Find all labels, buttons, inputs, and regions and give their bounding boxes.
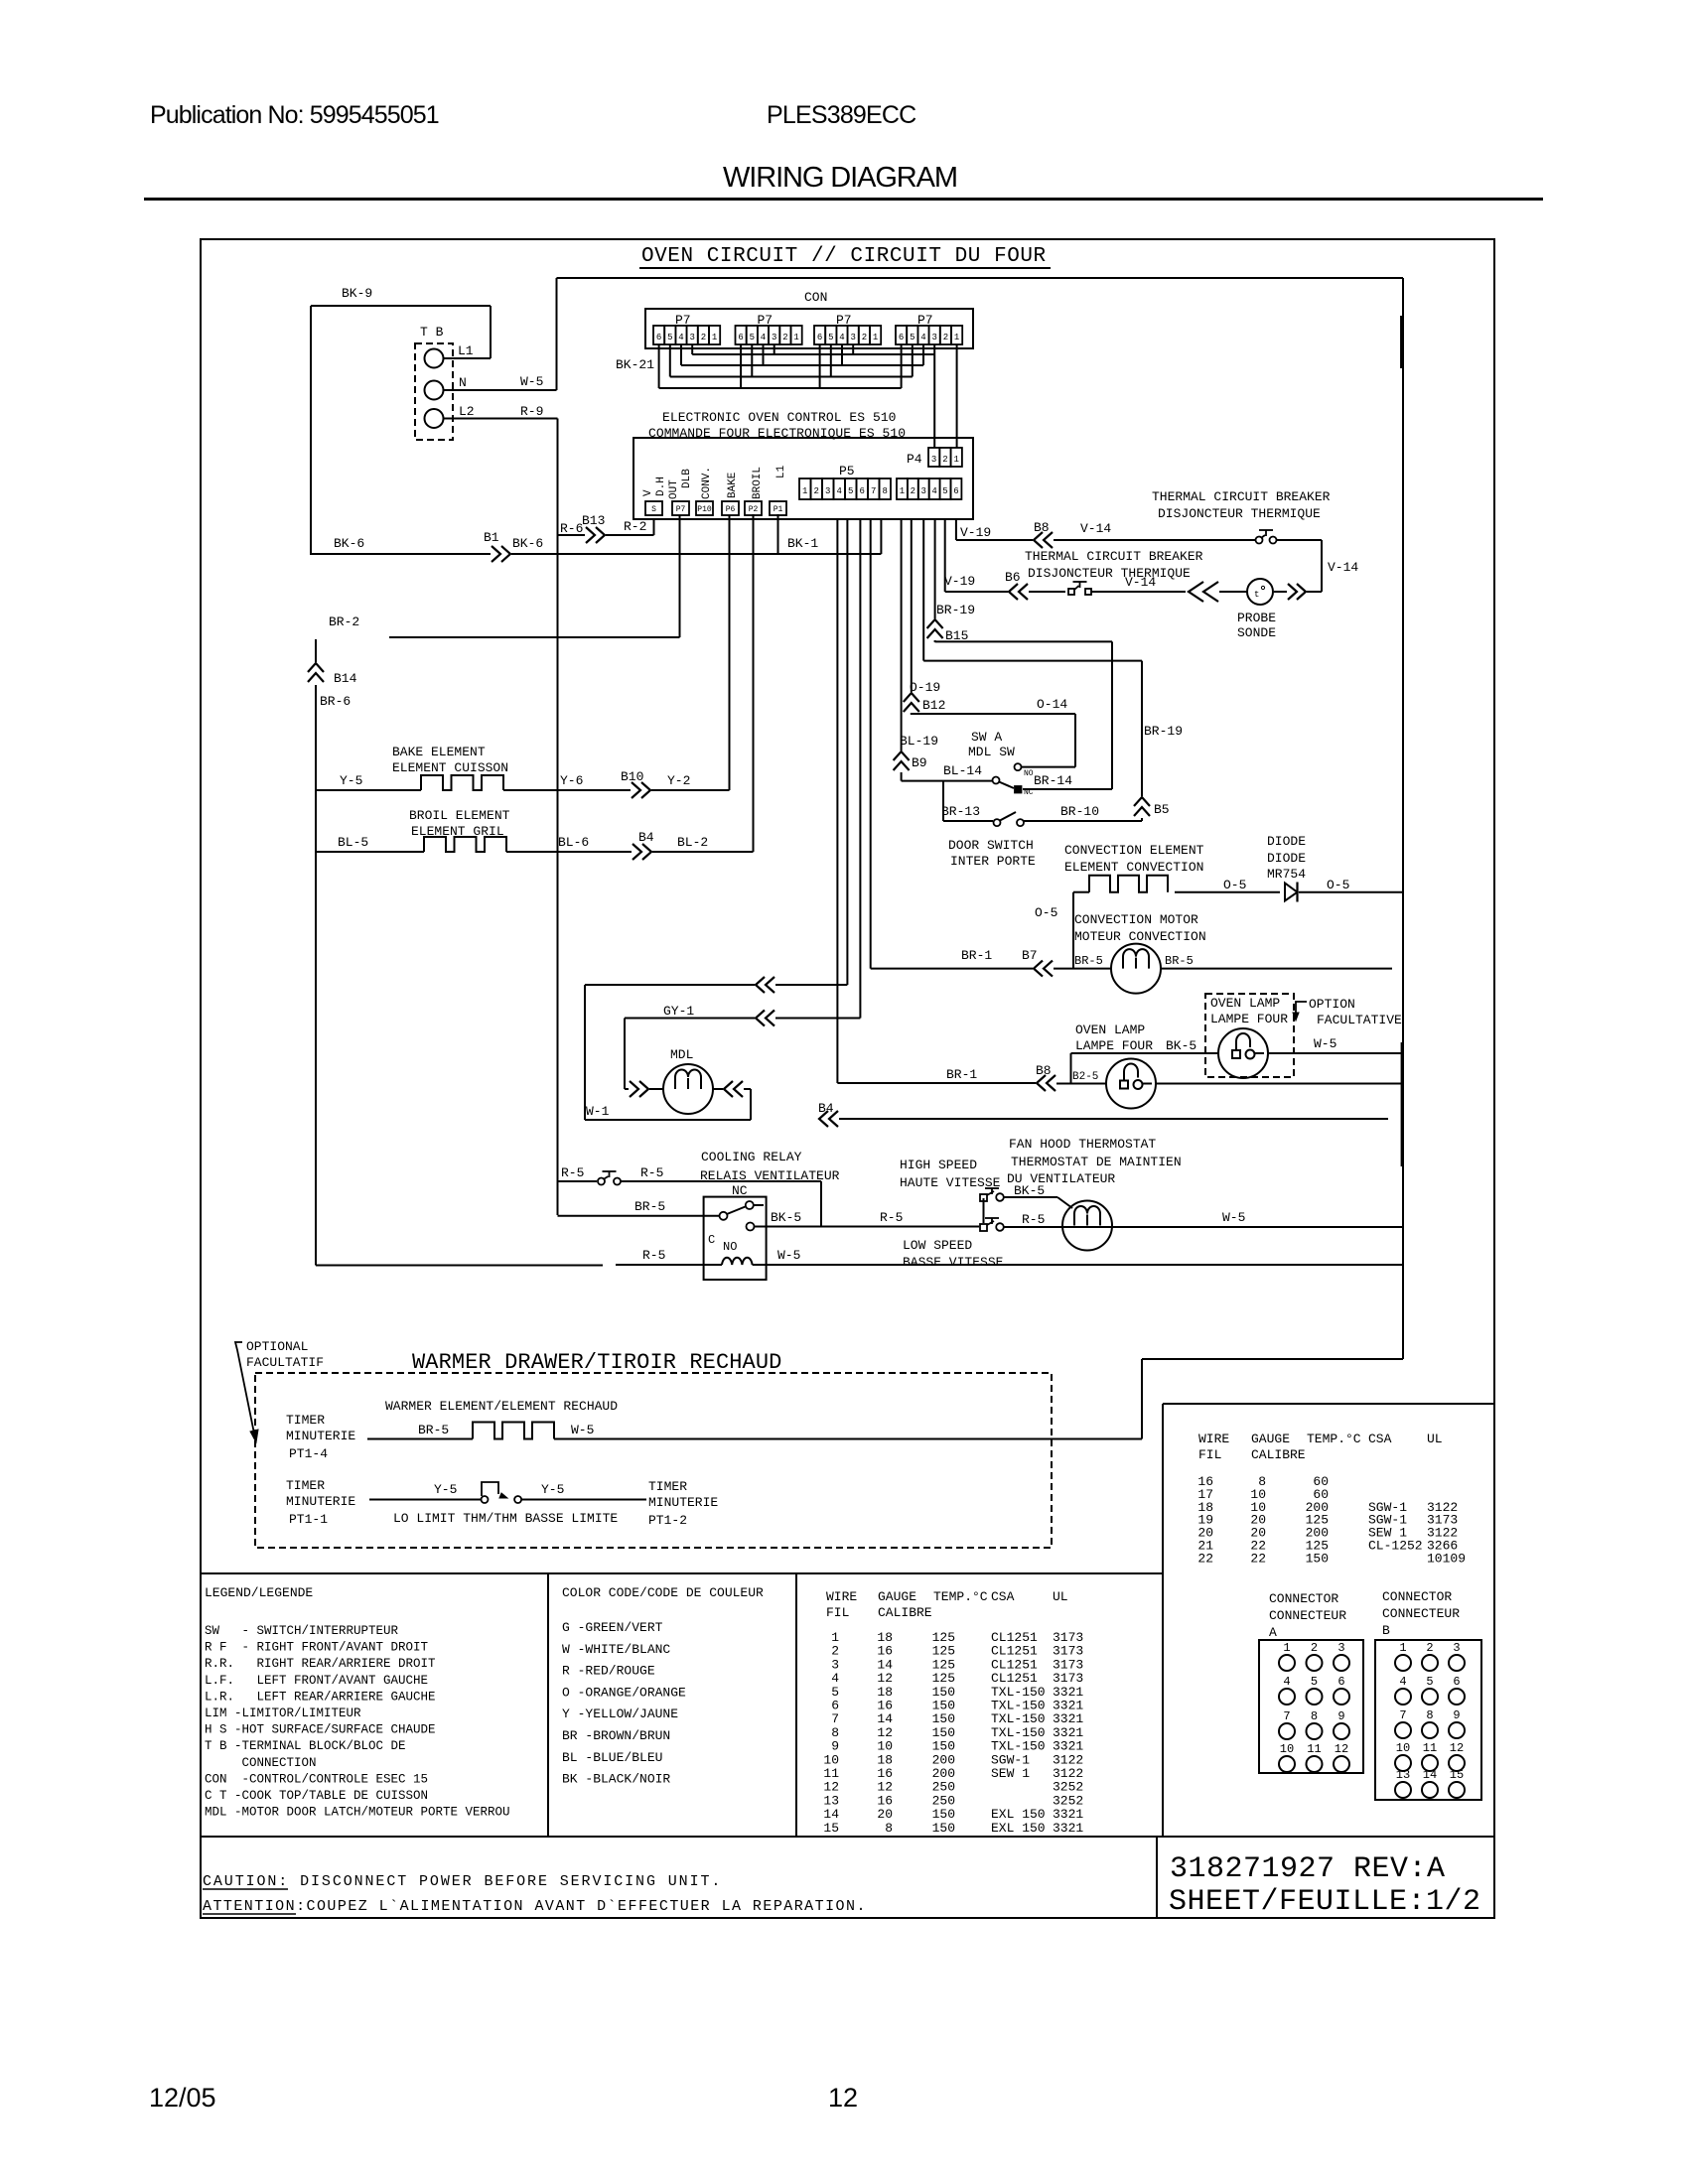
wire B3 drop [922,519,924,661]
svg-text:BROIL ELEMENT: BROIL ELEMENT [409,808,510,823]
connector A pin grid [1259,1640,1363,1773]
legend bottom edge [201,1836,1494,1838]
svg-text:MOTEUR CONVECTION: MOTEUR CONVECTION [1074,929,1206,944]
svg-text:V-19: V-19 [944,574,975,589]
wire CON to P4 pin 1 [956,344,958,448]
wire W-5 coil right [753,1264,1403,1266]
svg-text:OPTIONAL: OPTIONAL [246,1339,308,1354]
wire V-19 upper [956,539,1033,541]
svg-text:15: 15 [823,1821,839,1836]
svg-text:L.R. LEFT REAR/ARRIERE GAUCH: L.R. LEFT REAR/ARRIERE GAUCHE [205,1690,436,1704]
svg-text:4: 4 [836,486,841,496]
svg-text:2: 2 [942,455,947,465]
svg-text:CSA: CSA [991,1589,1015,1604]
svg-text:1: 1 [1283,1641,1290,1655]
svg-text:1: 1 [802,486,807,496]
svg-text:CONVECTION ELEMENT: CONVECTION ELEMENT [1064,843,1204,858]
svg-text:BK-21: BK-21 [616,357,654,372]
svg-text:22: 22 [1197,1551,1213,1566]
svg-text:BK-6: BK-6 [334,536,364,551]
EOC pin square S [645,501,662,515]
svg-text:B14: B14 [334,671,357,686]
svg-text:WIRING DIAGRAM: WIRING DIAGRAM [723,162,957,194]
svg-text:FACULTATIVE: FACULTATIVE [1317,1013,1402,1027]
wire connector to probe [1219,591,1247,593]
svg-text:P10: P10 [697,505,712,514]
svg-text:R-5: R-5 [561,1165,584,1180]
wire L2 main vertical [557,419,559,1216]
svg-text:O-5: O-5 [1327,878,1349,892]
svg-text:FIL: FIL [1198,1447,1221,1462]
svg-text:14: 14 [1423,1768,1437,1782]
svg-text:BR-5: BR-5 [1165,954,1194,968]
svg-text:THERMAL CIRCUIT BREAKER: THERMAL CIRCUIT BREAKER [1152,489,1331,504]
svg-text:LIM -LIMITOR/LIMITEUR: LIM -LIMITOR/LIMITEUR [205,1706,361,1720]
svg-text:15: 15 [1450,1768,1464,1782]
svg-text:B10: B10 [621,769,643,784]
caution underline [203,1888,288,1890]
svg-text:W-1: W-1 [586,1104,610,1119]
harness BK-21 bus wires [692,353,934,355]
wire BL-5 [316,851,424,853]
svg-text:C T -COOK TOP/TABLE DE CUISSON: C T -COOK TOP/TABLE DE CUISSON [205,1789,428,1803]
optional callout arrow [235,1342,254,1433]
wire BR-5 warmer [367,1438,473,1440]
wire BK-6 segment [311,553,491,555]
wire A7 drop [870,519,872,969]
schematic border frame [201,239,1494,1918]
svg-text:A: A [1269,1625,1277,1640]
svg-text:BR-10: BR-10 [1060,804,1099,819]
legend divider 2 [795,1573,797,1837]
svg-text:B4: B4 [638,830,654,845]
svg-text:W-5: W-5 [777,1248,800,1263]
wire B1 drop lower [901,772,903,781]
wire BL-2 [652,851,754,853]
svg-text:BR-6: BR-6 [320,694,351,709]
svg-text:PT1-2: PT1-2 [648,1513,687,1528]
wire warmer top link [1142,1358,1403,1360]
wire B2 drop upper [911,519,913,692]
svg-text:Y -YELLOW/JAUNE: Y -YELLOW/JAUNE [562,1706,678,1721]
svg-text:5: 5 [942,486,947,496]
svg-text:3: 3 [931,455,936,465]
svg-text:L2: L2 [459,404,475,419]
EOC pin square P2 [745,501,762,515]
svg-text:10: 10 [1280,1742,1294,1756]
wire B4 drop upper [934,519,936,618]
svg-text:B13: B13 [582,513,605,528]
svg-text:LEGEND/LEGENDE: LEGEND/LEGENDE [205,1585,313,1600]
svg-text:5: 5 [1426,1675,1433,1689]
svg-text:12: 12 [1450,1741,1464,1755]
svg-text:WARMER ELEMENT/ELEMENT RECHAUD: WARMER ELEMENT/ELEMENT RECHAUD [385,1399,618,1414]
wire BR-14 riser [1111,641,1113,789]
svg-text:Y-2: Y-2 [667,773,690,788]
svg-text:UL: UL [1053,1589,1068,1604]
svg-text:BK-9: BK-9 [342,286,372,301]
header rule [144,198,1543,201]
svg-text:1: 1 [953,455,958,465]
svg-text:6: 6 [1337,1675,1344,1689]
svg-text:P7: P7 [676,505,686,514]
probe sensor circle [1247,579,1273,605]
EOC pin square P6 [722,501,739,515]
wire V-14 upper [1054,539,1255,541]
svg-text:DIODE: DIODE [1267,851,1306,866]
wire BR-14 [1023,788,1112,790]
svg-text:12: 12 [1335,1742,1348,1756]
svg-text:ELEMENT CONVECTION: ELEMENT CONVECTION [1064,860,1203,875]
wire fan feed [821,1226,979,1228]
svg-text:L1: L1 [458,343,474,358]
svg-text:W-5: W-5 [571,1423,594,1437]
wire B2-5 into lamp [1056,1083,1106,1085]
svg-text:CON -CONTROL/CONTROLE ESEC 15: CON -CONTROL/CONTROLE ESEC 15 [205,1772,428,1786]
wire N to W-5 riser [443,389,557,391]
EOC connector P5 group A pins 1-8 [799,478,811,499]
wire MDL loop left vertical [584,985,586,1120]
svg-text:3: 3 [931,333,936,342]
relay NO contact [747,1223,755,1231]
svg-text:P4: P4 [907,452,922,467]
wire timer to lo-limit [369,1499,481,1501]
svg-text:W-5: W-5 [1314,1036,1336,1051]
low speed thermostat switch [980,1224,987,1231]
wire CON to P4 pin 3 [933,354,935,448]
wire V-19 lower [945,591,1008,593]
svg-text:GAUGE: GAUGE [1251,1432,1290,1446]
svg-text:4: 4 [761,333,766,342]
convection element resistor [1089,876,1168,892]
svg-text:BK-5: BK-5 [1166,1038,1196,1053]
svg-text:BK -BLACK/NOIR: BK -BLACK/NOIR [562,1772,670,1787]
wire optional lamp left [1071,1052,1219,1054]
terminal block T B dashed outline [415,343,453,440]
wire to SW A NO contact [1022,766,1075,768]
svg-text:LO LIMIT THM/THM BASSE LIMITE: LO LIMIT THM/THM BASSE LIMITE [393,1511,618,1526]
svg-text:L1: L1 [775,465,787,478]
caution divider [1156,1837,1158,1918]
svg-text:1: 1 [900,486,905,496]
svg-text:DISJONCTEUR THERMIQUE: DISJONCTEUR THERMIQUE [1158,506,1321,521]
right table box left edge [1162,1404,1164,1837]
svg-text:LAMPE FOUR: LAMPE FOUR [1210,1012,1288,1026]
high speed thermostat switch [980,1194,987,1201]
svg-text:B12: B12 [922,698,945,713]
svg-text:OPTION: OPTION [1309,997,1355,1012]
svg-text:TIMER: TIMER [286,1413,325,1428]
svg-text:MR754: MR754 [1267,867,1306,882]
svg-text:8: 8 [1311,1709,1318,1723]
svg-text:2: 2 [943,333,948,342]
svg-text:V: V [642,489,654,496]
wire V-14 right drop [1321,540,1323,592]
svg-text:12/05: 12/05 [149,2083,216,2113]
svg-text:5: 5 [1311,1675,1318,1689]
svg-text:DLB: DLB [681,469,693,488]
wire B5 drop [944,519,946,592]
svg-text:SW - SWITCH/INTERRUPTEUR: SW - SWITCH/INTERRUPTEUR [205,1624,399,1638]
EOC pin square P7 [672,501,689,515]
wire R-5 drop [820,1181,822,1226]
connector B pin grid [1375,1640,1481,1800]
svg-text:Y-5: Y-5 [340,773,362,788]
wire A5 horizontal [585,984,755,986]
SW A blade [999,782,1014,789]
wire O-14 drop [1074,714,1076,767]
svg-text:L.F. LEFT FRONT/AVANT GAUCHE: L.F. LEFT FRONT/AVANT GAUCHE [205,1674,428,1688]
svg-text:13: 13 [1396,1768,1410,1782]
wire B15 horizontal [935,640,1112,642]
relay NC contact [746,1201,754,1209]
wire motor to right gap [1161,968,1392,970]
connector B9 chevrons up [894,751,910,760]
wire doubled segment on right rail [1400,316,1403,368]
wire A4 drop [836,519,838,1083]
svg-text:150: 150 [1306,1551,1329,1566]
svg-text:4: 4 [839,333,844,342]
wire BR-19 vertical lower [1141,818,1143,821]
option callout bracket [1296,1002,1307,1015]
svg-text:7: 7 [1283,1709,1290,1723]
svg-text:THERMOSTAT DE MAINTIEN: THERMOSTAT DE MAINTIEN [1011,1155,1182,1169]
svg-text:MINUTERIE: MINUTERIE [286,1429,355,1443]
wire GY-1 right [775,1018,860,1020]
svg-text:MDL: MDL [670,1047,693,1062]
wire neutral rail drop right [1402,278,1404,1359]
svg-text:EXL 150: EXL 150 [991,1821,1046,1836]
svg-text:BASSE VITESSE: BASSE VITESSE [903,1255,1004,1270]
wire B2 drop lower [911,713,913,715]
svg-text:Y-6: Y-6 [560,773,583,788]
svg-text:R-9: R-9 [520,404,543,419]
svg-text:OVEN CIRCUIT // CIRCUIT DU FOU: OVEN CIRCUIT // CIRCUIT DU FOUR [641,245,1047,268]
svg-text:PLES389ECC: PLES389ECC [767,101,916,129]
wire BR-19 vertical upper [1141,661,1143,796]
CON console box outline [645,309,973,348]
svg-text:1: 1 [873,333,878,342]
svg-text:WARMER DRAWER/TIROIR RECHAUD: WARMER DRAWER/TIROIR RECHAUD [412,1350,781,1375]
svg-text:P1: P1 [774,505,783,514]
CON connector P7 group 4 pins 6-1 [896,326,907,344]
svg-text:MINUTERIE: MINUTERIE [648,1495,718,1510]
svg-text:CAUTION: DISCONNECT POWER BEFO: CAUTION: DISCONNECT POWER BEFORE SERVICI… [203,1873,722,1890]
svg-text:LAMPE FOUR: LAMPE FOUR [1075,1038,1153,1053]
svg-text:8: 8 [882,486,887,496]
connector chevrons on A5 wire [756,977,765,993]
wire BR-1 lamp [837,1082,1036,1084]
svg-text:R-6: R-6 [560,521,583,536]
svg-text:2: 2 [1311,1641,1318,1655]
thermal circuit breaker 1 switch [1256,537,1263,544]
svg-text:BL-6: BL-6 [558,835,589,850]
wire R-5 top left [558,1180,598,1182]
wire O-5 diode to rail [1299,891,1403,893]
svg-text:BROIL: BROIL [752,467,764,499]
wire BK-5 to fan [1004,1196,1057,1198]
wire lamp box left vertical [1070,1053,1072,1084]
svg-text:3: 3 [689,333,694,342]
svg-text:CONNECTION: CONNECTION [205,1756,317,1770]
svg-text:W-5: W-5 [520,374,543,389]
oven lamp main [1106,1059,1156,1109]
svg-text:THERMAL CIRCUIT BREAKER: THERMAL CIRCUIT BREAKER [1025,549,1203,564]
svg-text:MDL SW: MDL SW [968,745,1015,759]
svg-text:10109: 10109 [1427,1551,1466,1566]
svg-text:BL-14: BL-14 [943,763,982,778]
connector B15 chevrons up [927,619,943,628]
connector B1 chevrons [492,546,500,562]
terminal N [425,381,444,400]
relay blade [727,1207,746,1215]
wire BL-14 [902,780,992,782]
svg-text:CSA: CSA [1368,1432,1392,1446]
svg-text:G -GREEN/VERT: G -GREEN/VERT [562,1620,663,1635]
wire MDL motor out [713,1088,723,1090]
svg-text:150: 150 [932,1821,955,1836]
EOC control box outline [633,438,973,519]
svg-text:B2-5: B2-5 [1072,1071,1098,1083]
probe right chevrons [1288,584,1297,600]
svg-text:3: 3 [920,486,925,496]
connector B5 chevrons up [1134,797,1150,806]
svg-text:4: 4 [678,333,683,342]
svg-text:6: 6 [817,333,822,342]
svg-text:9: 9 [1453,1708,1460,1722]
svg-text:12: 12 [828,2083,858,2113]
svg-text:TEMP.°C: TEMP.°C [1307,1432,1361,1446]
svg-text:Y-5: Y-5 [541,1482,564,1497]
svg-text:1: 1 [954,333,959,342]
wire into MDL motor [625,1088,629,1090]
wire L2 R-9 [443,418,558,420]
wire BR-6 vertical [315,685,317,1266]
EOC pin square P10 [696,501,713,515]
svg-text:11: 11 [1423,1741,1437,1755]
svg-text:6: 6 [738,333,743,342]
svg-text:V-14: V-14 [1328,560,1358,575]
door switch pivot [994,819,1001,826]
svg-text:CONNECTOR: CONNECTOR [1382,1589,1452,1604]
oven circuit title underline [639,267,1051,269]
wire Y-2 [651,789,730,791]
wire R-5 through fan [1004,1226,1403,1228]
wire BR-6 stub above arrow [315,639,317,662]
wire W-1 bottom [585,1119,751,1121]
wire BR-19 horizontal [923,660,1142,662]
svg-text:3321: 3321 [1053,1821,1083,1836]
connector B7 chevrons [1034,961,1043,977]
wire Y-6 [503,789,631,791]
svg-text:O-14: O-14 [1037,697,1067,712]
svg-text:SEW 1: SEW 1 [991,1766,1030,1781]
svg-text:t: t [1254,590,1259,600]
svg-text:S: S [651,505,656,514]
wire B4 stub [839,1118,1388,1120]
wire convection element left drop [1073,891,1089,893]
svg-text:BR-13: BR-13 [941,804,980,819]
svg-text:BL-19: BL-19 [900,734,938,749]
wire B6 drop [955,519,957,540]
svg-text:CONNECTEUR: CONNECTEUR [1269,1608,1346,1623]
svg-text:BK-6: BK-6 [512,536,543,551]
svg-text:O-19: O-19 [910,680,940,695]
wire B4 drop lower [934,640,936,642]
wire BL-6 [506,851,632,853]
svg-text:MINUTERIE: MINUTERIE [286,1494,355,1509]
relay NC stub [754,1204,764,1206]
svg-text:B7: B7 [1022,948,1038,963]
svg-text:2: 2 [782,333,787,342]
svg-text:CONVECTION MOTOR: CONVECTION MOTOR [1074,912,1198,927]
svg-text:CONV.: CONV. [701,467,713,499]
wire warmer riser [1141,1359,1143,1439]
svg-text:4: 4 [1399,1675,1406,1689]
warmer drawer dashed box [255,1373,1052,1548]
svg-text:6: 6 [1453,1675,1460,1689]
svg-text:CALIBRE: CALIBRE [1251,1447,1306,1462]
bake element resistor [421,775,503,790]
optional oven lamp [1218,1028,1268,1078]
svg-text:22: 22 [1250,1551,1266,1566]
svg-text:BR-19: BR-19 [936,603,975,617]
svg-text:DIODE: DIODE [1267,834,1306,849]
svg-text:318271927 REV:A: 318271927 REV:A [1170,1852,1446,1886]
wire BR-6 bottom to coil [316,1265,603,1267]
CON connector P7 group 1 pins 6-1 [653,326,664,344]
svg-text:CONNECTEUR: CONNECTEUR [1382,1606,1460,1621]
svg-text:5: 5 [750,333,755,342]
CON connector P7 group 3 pins 6-1 [814,326,825,344]
wire A5 drop [846,519,848,985]
svg-text:NO: NO [1024,769,1034,778]
svg-text:BR-1: BR-1 [961,948,992,963]
svg-text:P5: P5 [839,464,855,478]
svg-text:R.R. RIGHT REAR/ARRIERE DROI: R.R. RIGHT REAR/ARRIERE DROIT [205,1657,436,1671]
svg-text:R-5: R-5 [642,1248,665,1263]
EOC connector P4 pins 3 2 1 [928,448,939,467]
attention underline [203,1913,296,1915]
wire MDL out drop [750,1089,752,1120]
broil element resistor [424,837,506,852]
svg-text:LOW SPEED: LOW SPEED [903,1238,972,1253]
wire BK-5 diagonal into fan [1057,1197,1072,1208]
wire A8 drop [880,519,882,554]
EOC pin square P1 [770,501,786,515]
svg-text:5: 5 [910,333,914,342]
svg-text:T B -TERMINAL BLOCK/BLOC DE: T B -TERMINAL BLOCK/BLOC DE [205,1739,406,1753]
svg-text:BL-5: BL-5 [338,835,368,850]
wire high-low link [983,1198,985,1223]
connector B8 chevrons upper [1034,532,1043,548]
svg-text:SONDE: SONDE [1237,625,1276,640]
svg-text:BR-19: BR-19 [1144,724,1183,739]
svg-text:HIGH SPEED: HIGH SPEED [900,1158,977,1172]
svg-text:1: 1 [1399,1641,1406,1655]
svg-text:COLOR CODE/CODE DE COULEUR: COLOR CODE/CODE DE COULEUR [562,1585,764,1600]
svg-text:8: 8 [1426,1708,1433,1722]
svg-text:UL: UL [1427,1432,1443,1446]
svg-text:BR-14: BR-14 [1034,773,1072,788]
CON connector P7 group 2 pins 6-1 [736,326,747,344]
wire BL-14 to door switch drop [942,781,944,821]
SW A pivot contact [993,777,1000,784]
svg-text:T B: T B [420,325,444,340]
probe connector chevrons big [1189,582,1203,602]
svg-text:V-19: V-19 [960,525,991,540]
optional lamp dashed box [1205,994,1294,1077]
